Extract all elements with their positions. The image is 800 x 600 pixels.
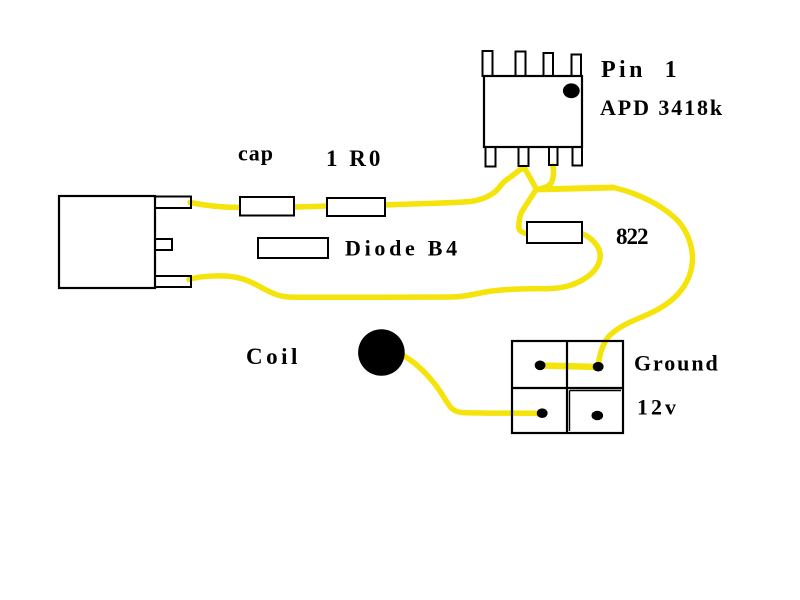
wire: IC pin 6 drop to junction [541, 166, 554, 189]
header J2 pin dot ground-right [593, 362, 604, 372]
capacitor cap [240, 197, 294, 216]
IC U1 top pin 2 [516, 52, 526, 77]
wire: coil to 12v header pin [402, 355, 540, 413]
svg-text:APD 3418k: APD 3418k [600, 95, 724, 120]
coil L1 [358, 329, 405, 376]
connector J1 top tab [155, 197, 191, 209]
wire: 1R0 right rising to IC pin 7 apex [384, 168, 524, 206]
wire: 822 right hook down to bottom run [546, 233, 600, 289]
connector J1 bottom tab [155, 276, 191, 287]
wire: apex descent to junction under IC [524, 168, 537, 190]
svg-text:1 R0: 1 R0 [326, 146, 383, 171]
svg-text:Diode B4: Diode B4 [345, 236, 461, 261]
svg-text:Pin 1: Pin 1 [601, 57, 680, 83]
IC U1 bottom pin 6 [549, 147, 558, 165]
IC U1 bottom pin 8 [486, 147, 496, 167]
wire: junction horizontal run [536, 188, 613, 190]
wire: cap to 1R0 [293, 206, 328, 207]
connector J1 middle tab [155, 239, 172, 250]
header J2 outer frame [512, 341, 623, 433]
svg-text:822: 822 [616, 224, 648, 249]
IC U1 top pin 4 [572, 55, 582, 77]
header J2 bottom-right inner cell left edge [569, 391, 571, 432]
diode B4 [258, 238, 328, 258]
wire: junction drop to 822 left end [519, 191, 536, 234]
IC U1 bottom pin 7 [519, 147, 529, 166]
svg-text:cap: cap [238, 141, 274, 166]
resistor 822 [527, 222, 582, 243]
resistor 1R0 [327, 198, 385, 216]
wire: ground jumper between header pins [541, 366, 598, 368]
header J2 bottom-right inner cell top edge [570, 390, 622, 392]
IC U1 top pin 1 [483, 51, 493, 76]
header J2 pin dot 12v-right [592, 411, 604, 421]
header J2 vertical divider [566, 341, 568, 433]
IC U1 bottom pin 5 [573, 147, 583, 166]
wire: J1 bottom tab bottom run to 822 hook [189, 276, 546, 297]
wire: J1 top tab to cap [190, 203, 240, 208]
IC pin-1 marker dot [563, 83, 580, 98]
connector J1 body [59, 196, 155, 288]
header J2 pin dot ground-left [535, 361, 546, 371]
svg-text:Coil: Coil [246, 344, 301, 369]
header J2 pin dot 12v-left [537, 408, 548, 418]
svg-text:12v: 12v [637, 395, 679, 420]
header J2 horizontal divider [512, 387, 623, 389]
svg-text:Ground: Ground [634, 351, 720, 376]
IC U1 top pin 3 [544, 53, 554, 76]
wire: big arc from junction to ground header pin [599, 188, 693, 366]
IC U1 body [484, 76, 582, 147]
